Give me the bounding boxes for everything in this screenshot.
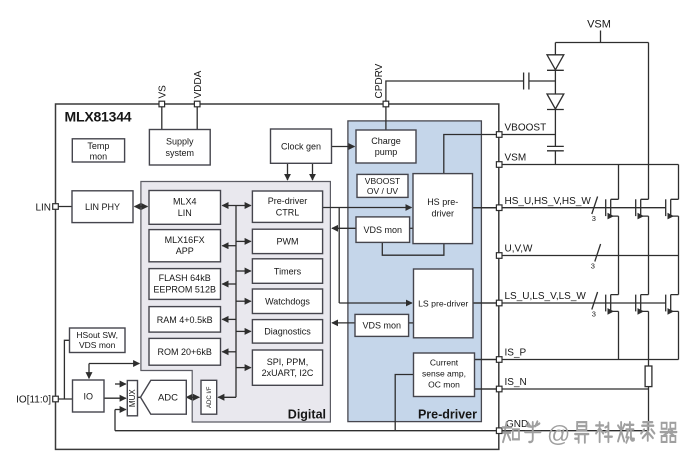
block LIN PHY	[72, 191, 133, 223]
pin CPDRV	[383, 101, 389, 107]
capacitor C2 (VBOOST reservoir)	[547, 146, 564, 150]
svg-text:PWM: PWM	[277, 237, 299, 247]
pin IO	[53, 396, 59, 402]
svg-text:3: 3	[591, 262, 595, 271]
wire pre-driver CTRL to HS pre-driver	[323, 207, 412, 209]
digital block (gray region)	[141, 182, 331, 423]
block IO	[73, 380, 105, 412]
wire HS T1 drain from VSM line	[618, 165, 620, 200]
svg-text:FLASH 64kB: FLASH 64kB	[159, 273, 211, 283]
svg-text:CPDRV: CPDRV	[374, 63, 385, 98]
wire VBOOST line from HS pre-driver top to pin and external diode stack	[444, 135, 556, 174]
wire top VSM rail	[555, 42, 648, 44]
svg-text:VDDA: VDDA	[193, 70, 204, 98]
bus vertical in digital block	[235, 206, 237, 398]
watermark 知乎 @昂科烧录器	[503, 421, 677, 447]
svg-text:Charge: Charge	[371, 136, 401, 146]
wire VSM line from pin to right	[499, 164, 678, 166]
wire current sense to IS_N pin	[475, 388, 500, 390]
wire feedback from GND line into MUX	[114, 410, 116, 431]
wire IO to digital block (bidirectional corner)	[88, 364, 90, 379]
diode D1	[547, 55, 564, 71]
wire VDS mon lower to digital (arrow left)	[332, 322, 355, 324]
wire VDDA pin to supply system	[196, 104, 198, 130]
wire HS pre-driver to HS pin	[473, 207, 500, 209]
wire stub into MUX top input	[115, 383, 126, 385]
svg-text:system: system	[166, 148, 195, 158]
svg-text:Diagnostics: Diagnostics	[264, 327, 311, 337]
wire VSM stub	[600, 31, 602, 43]
block LS pre-driver	[414, 269, 474, 338]
block Clock gen	[271, 129, 332, 163]
block ROM	[149, 338, 221, 365]
transistor Q2 (HS V)	[636, 199, 649, 219]
block SPI PPM 2xUART I2C	[252, 350, 322, 385]
resistor R1 shunt stubs	[648, 360, 650, 431]
block Charge pump	[356, 130, 416, 163]
svg-text:SPI, PPM,: SPI, PPM,	[267, 357, 309, 367]
svg-text:Pre-driver: Pre-driver	[418, 408, 477, 422]
block RAM	[149, 307, 221, 333]
wire LS sources down to IS_P line	[619, 311, 679, 359]
block Pre-driver CTRL	[252, 191, 322, 222]
transistor Q6 (LS W)	[666, 295, 679, 315]
svg-text:Current: Current	[430, 357, 459, 367]
pin LS	[496, 300, 502, 306]
svg-text:2xUART, I2C: 2xUART, I2C	[262, 368, 314, 378]
slash 3 on HS line	[592, 197, 598, 224]
wire bus to SPI block	[236, 367, 251, 369]
wire bus to RAM	[222, 318, 236, 320]
wire diode chain vertical segments	[554, 43, 556, 165]
svg-text:VDS mon: VDS mon	[364, 225, 403, 235]
wire branch down to LS pre-driver	[338, 208, 340, 304]
block HS pre-driver	[413, 174, 473, 244]
pin HS	[496, 205, 502, 211]
svg-text:CTRL: CTRL	[276, 208, 300, 218]
svg-text:Supply: Supply	[166, 137, 194, 147]
block MLX4 LIN	[149, 191, 221, 225]
wire clock gen arrow 1 into digital	[287, 164, 289, 181]
wire MUX to ADC	[138, 396, 141, 398]
svg-text:IO[11:0]: IO[11:0]	[16, 395, 51, 406]
svg-text:MLX81344: MLX81344	[65, 109, 132, 125]
block Current sense amp, OC mon	[414, 353, 475, 397]
pin LIN	[53, 204, 59, 210]
wire clock gen to charge pump	[332, 146, 355, 148]
svg-text:Clock gen: Clock gen	[281, 142, 321, 152]
svg-text:pump: pump	[375, 147, 398, 157]
wire GND line	[115, 430, 649, 432]
svg-text:LIN PHY: LIN PHY	[85, 202, 120, 212]
pin VSM	[496, 162, 502, 168]
pin GND	[496, 428, 502, 434]
block Supply system	[149, 130, 210, 166]
pre-driver block (blue region)	[348, 121, 482, 422]
svg-text:mon: mon	[90, 151, 108, 161]
wire HS T3 drain drop from VSM line	[678, 165, 680, 200]
wire bus to ROM	[222, 351, 236, 353]
transistor Q1 (HS U)	[606, 199, 619, 219]
svg-text:driver: driver	[431, 209, 454, 219]
wire IS_N line	[475, 388, 649, 390]
wire HS sources / LS drains verticals through U,V,W line	[619, 216, 679, 295]
wire HS T2 drain from top rail	[648, 43, 650, 200]
svg-text:LIN: LIN	[178, 208, 192, 218]
svg-text:IS_N: IS_N	[505, 377, 527, 388]
block VDS mon upper	[356, 217, 410, 243]
block Timers	[252, 259, 322, 284]
block MLX16FX APP	[149, 230, 221, 262]
wire arrow into LS pre-driver	[339, 302, 412, 304]
svg-text:VS: VS	[157, 85, 168, 99]
svg-text:HS pre-: HS pre-	[427, 197, 458, 207]
wire LS gate line (LS_U,LS_V,LS_W)	[473, 302, 666, 304]
svg-text:sense amp,: sense amp,	[422, 368, 466, 378]
block Watchdogs	[252, 289, 322, 314]
wire bus to MLX16FX APP	[222, 245, 236, 247]
pin VBOOST	[496, 132, 502, 138]
wire bus to Diagnostics	[236, 330, 251, 332]
svg-text:OC mon: OC mon	[428, 379, 460, 389]
wire IO pin to IO block	[56, 398, 73, 400]
svg-text:MUX: MUX	[128, 389, 137, 407]
capacitor C1 (CPDRV bootstrap)	[524, 73, 556, 90]
wire U,V,W line	[499, 255, 678, 257]
svg-text:@: @	[547, 421, 570, 447]
pin VDDA	[194, 101, 200, 107]
svg-text:IS_P: IS_P	[505, 348, 527, 359]
wire LS pre-driver to LS pin	[473, 302, 499, 304]
svg-text:Digital: Digital	[288, 408, 326, 422]
wire VDS mon upper to digital (arrow left)	[332, 227, 356, 229]
wire current sense to IS_P pin	[475, 359, 500, 361]
svg-text:VBOOST: VBOOST	[505, 123, 547, 134]
svg-text:HS_U,HS_V,HS_W: HS_U,HS_V,HS_W	[505, 196, 592, 207]
svg-text:3: 3	[592, 214, 596, 223]
svg-text:MLX4: MLX4	[173, 196, 197, 206]
block FLASH EEPROM	[149, 269, 221, 300]
wire bus to FLASH	[222, 283, 236, 285]
wire clock gen arrow 2 into digital	[312, 164, 314, 181]
svg-text:Pre-driver: Pre-driver	[268, 196, 308, 206]
svg-text:Temp: Temp	[87, 141, 109, 151]
transistor Q5 (LS V)	[636, 295, 649, 315]
wire U-link VDS mon / HS pre-driver bottoms	[382, 242, 444, 255]
pin IS_P	[496, 357, 502, 363]
wire current sense to GND line	[395, 375, 413, 431]
svg-text:VSM: VSM	[505, 153, 527, 164]
slash 3 on LS line	[592, 292, 598, 319]
svg-text:LS pre-driver: LS pre-driver	[418, 298, 468, 308]
wire HSout SW tap from IO pin wire	[64, 340, 69, 399]
transistor Q3 (HS W)	[666, 199, 679, 219]
wire IS_P line	[475, 359, 679, 361]
wire HS gate line (HS_U,HS_V,HS_W)	[473, 207, 667, 209]
block VDS mon lower	[355, 314, 409, 336]
svg-text:VDS mon: VDS mon	[79, 340, 116, 350]
block ADC I/F	[201, 380, 217, 414]
block Diagnostics	[252, 320, 322, 344]
wire bus to Watchdogs	[236, 300, 251, 302]
block PWM	[252, 229, 322, 253]
block MUX	[127, 381, 137, 416]
svg-text:OV / UV: OV / UV	[367, 186, 399, 196]
resistor R1 body	[645, 366, 652, 387]
svg-text:VDS mon: VDS mon	[363, 321, 402, 331]
svg-text:LS_U,LS_V,LS_W: LS_U,LS_V,LS_W	[505, 291, 587, 302]
wire bus down to ADC I/F	[218, 396, 236, 398]
block ADC	[141, 380, 187, 414]
svg-text:APP: APP	[176, 246, 194, 256]
wire VDS mon lower to LS pre-driver	[409, 322, 414, 324]
transistor Q4 (LS U)	[606, 295, 619, 315]
pin VS	[159, 101, 165, 107]
wire VS pin to supply system	[161, 104, 163, 130]
svg-text:ADC I/F: ADC I/F	[207, 386, 213, 408]
wire MLX4 LIN / pre-driver CTRL bus (bidirectional)	[222, 205, 251, 207]
svg-text:EEPROM 512B: EEPROM 512B	[153, 285, 216, 295]
slash 3 on U,V,W line	[591, 244, 601, 271]
wire CPDRV pin up and right to external capacitor	[386, 81, 523, 104]
svg-text:VSM: VSM	[587, 19, 611, 31]
chip outline MLX81344	[56, 104, 499, 449]
block VBOOST OV/UV	[357, 174, 408, 197]
svg-text:ROM 20+6kB: ROM 20+6kB	[158, 347, 212, 357]
svg-text:MLX16FX: MLX16FX	[165, 235, 205, 245]
svg-text:3: 3	[592, 310, 596, 319]
wire corner to digital left edge	[89, 363, 139, 365]
svg-text:LIN: LIN	[35, 202, 51, 213]
wire ADC to ADC I/F (bidirectional)	[186, 396, 199, 398]
pin UVW	[496, 253, 502, 259]
pin IS_N	[496, 386, 502, 392]
svg-text:U,V,W: U,V,W	[505, 244, 534, 255]
svg-text:VBOOST: VBOOST	[365, 176, 400, 186]
wire LIN pin to LIN PHY	[56, 206, 73, 208]
diode D2	[547, 94, 564, 110]
svg-text:Timers: Timers	[274, 266, 302, 276]
wire IO to MUX	[104, 397, 126, 399]
svg-text:RAM 4+0.5kB: RAM 4+0.5kB	[157, 315, 213, 325]
wire bus to PWM	[236, 240, 251, 242]
wire VDS mon upper to HS pre-driver	[410, 227, 413, 229]
svg-text:IO: IO	[83, 392, 93, 402]
wire bus to Timers	[236, 270, 251, 272]
block HSout SW, VDS mon	[70, 328, 126, 353]
wire CPDRV pin down to charge pump	[385, 104, 387, 130]
block Temp mon	[72, 139, 124, 162]
svg-text:HSout SW,: HSout SW,	[76, 330, 118, 340]
svg-text:ADC: ADC	[158, 393, 178, 404]
wire LIN PHY to MLX4 LIN (bidirectional)	[135, 206, 148, 208]
svg-text:Watchdogs: Watchdogs	[265, 297, 310, 307]
